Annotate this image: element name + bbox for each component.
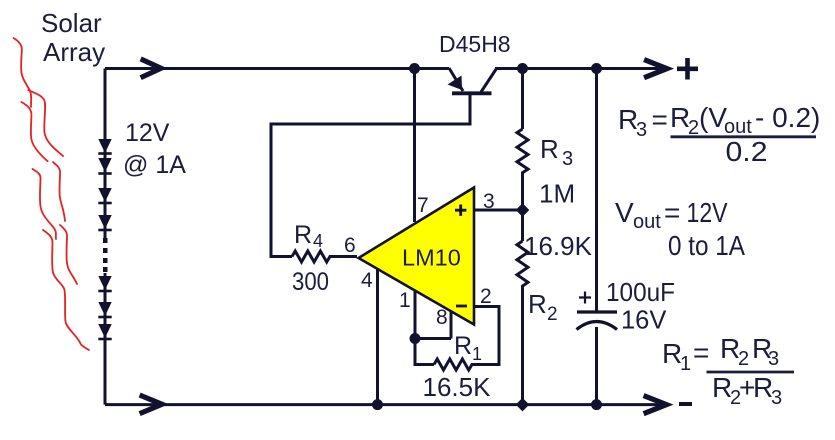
svg-text:16.5K: 16.5K (423, 372, 492, 402)
svg-text:3: 3 (483, 190, 495, 213)
svg-text:12V: 12V (125, 119, 170, 147)
svg-text:V: V (615, 197, 634, 228)
svg-text:=: = (652, 104, 668, 135)
svg-text:8: 8 (436, 306, 448, 329)
svg-text:6: 6 (344, 234, 356, 257)
svg-text:R: R (454, 332, 472, 360)
svg-text:3: 3 (562, 148, 573, 170)
svg-text:4: 4 (361, 269, 373, 292)
svg-text:4: 4 (313, 231, 323, 251)
svg-text:Array: Array (43, 37, 105, 67)
svg-text:12V: 12V (687, 197, 728, 228)
svg-text:R: R (540, 134, 559, 164)
svg-text:0.2: 0.2 (726, 136, 768, 167)
svg-text:7: 7 (417, 194, 429, 217)
svg-text:3: 3 (636, 119, 647, 141)
svg-text:1: 1 (472, 344, 482, 364)
svg-text:out: out (724, 116, 752, 138)
svg-text:3: 3 (771, 387, 782, 409)
svg-text:LM10: LM10 (402, 245, 461, 271)
svg-text:16V: 16V (621, 307, 666, 335)
svg-text:out: out (633, 211, 661, 233)
svg-text:16.9K: 16.9K (524, 231, 593, 261)
svg-text:- 0.2): - 0.2) (755, 102, 820, 133)
svg-text:1M: 1M (539, 179, 575, 209)
svg-text:R: R (528, 289, 547, 319)
svg-text:@ 1A: @ 1A (123, 151, 186, 179)
svg-text:2: 2 (480, 285, 492, 308)
svg-text:0 to 1A: 0 to 1A (668, 230, 745, 261)
svg-text:1: 1 (680, 353, 691, 375)
svg-text:Solar: Solar (41, 8, 102, 38)
svg-text:1: 1 (399, 289, 411, 312)
svg-text:3: 3 (768, 348, 779, 370)
svg-text:300: 300 (292, 268, 329, 296)
svg-text:100uF: 100uF (606, 277, 675, 307)
svg-text:=: = (664, 197, 680, 228)
svg-text:D45H8: D45H8 (439, 31, 511, 57)
svg-text:=: = (693, 337, 709, 368)
svg-text:2: 2 (547, 304, 558, 325)
svg-text:2: 2 (738, 348, 749, 370)
svg-text:R: R (294, 221, 312, 249)
